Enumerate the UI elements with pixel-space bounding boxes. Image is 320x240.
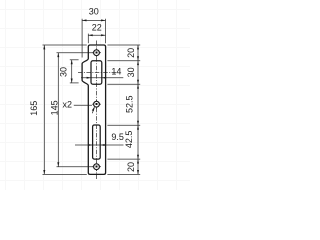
svg-text:x2: x2 xyxy=(63,100,73,110)
svg-text:14: 14 xyxy=(111,66,121,76)
svg-text:145: 145 xyxy=(50,100,60,115)
svg-text:52.5: 52.5 xyxy=(124,95,134,113)
svg-text:20: 20 xyxy=(126,48,136,58)
svg-text:30: 30 xyxy=(126,67,136,77)
svg-text:42.5: 42.5 xyxy=(124,131,134,149)
svg-text:30: 30 xyxy=(89,7,99,17)
svg-text:9.5: 9.5 xyxy=(111,132,124,142)
svg-text:165: 165 xyxy=(29,101,39,116)
svg-text:20: 20 xyxy=(126,162,136,172)
svg-text:30: 30 xyxy=(58,67,68,77)
svg-text:22: 22 xyxy=(92,22,102,32)
